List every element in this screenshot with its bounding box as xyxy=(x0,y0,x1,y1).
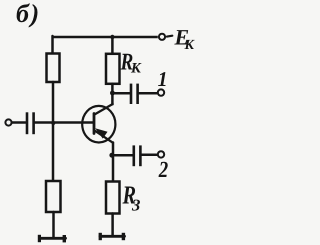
transistor Q1 (PNP) xyxy=(82,104,115,143)
terminal input circle xyxy=(5,119,11,125)
resistor Rэ xyxy=(106,182,120,214)
node emitter / C3 junction dot xyxy=(109,153,114,158)
ground (right) xyxy=(99,233,126,240)
svg-text:К: К xyxy=(184,38,196,53)
svg-text:2: 2 xyxy=(158,157,168,182)
svg-text:З: З xyxy=(131,196,140,215)
capacitor C3 (output 2) xyxy=(134,145,141,166)
wire left column middle xyxy=(52,82,55,181)
wire emitter column upper xyxy=(112,143,115,182)
wire capacitor to base xyxy=(35,121,94,124)
wire Rк to collector xyxy=(111,84,114,105)
resistor R1 (upper left bias) xyxy=(47,54,60,83)
wire left column upper xyxy=(51,36,54,54)
terminal -Ek circle xyxy=(159,34,165,40)
wire C2 to terminal 1 xyxy=(139,92,158,95)
svg-text:б): б) xyxy=(16,0,41,28)
wire top rail xyxy=(53,36,158,39)
resistor R2 (lower left bias) xyxy=(46,181,61,212)
svg-text:К: К xyxy=(130,61,142,77)
wire collector column upper xyxy=(111,37,114,54)
wire Rэ to ground xyxy=(111,214,114,236)
node junction top rail / collector column xyxy=(110,35,114,39)
node collector / C2 junction dot xyxy=(110,91,115,96)
wire input to capacitor xyxy=(12,121,26,124)
resistor Rк xyxy=(106,54,120,84)
capacitor C2 (output 1) xyxy=(131,84,138,104)
label Rк xyxy=(120,50,142,77)
label Rэ xyxy=(122,181,141,215)
terminal 1 circle xyxy=(158,89,164,95)
wire to capacitor C3 xyxy=(112,154,132,157)
ground (left) xyxy=(38,235,66,243)
svg-text:1: 1 xyxy=(158,67,168,91)
label -Eк xyxy=(174,25,196,53)
wire left column lower xyxy=(52,212,55,237)
wire C3 to terminal 2 xyxy=(142,154,158,157)
capacitor C1 (input) xyxy=(27,112,34,134)
node base junction dot xyxy=(51,121,55,125)
terminal 2 circle xyxy=(158,151,164,157)
wire to capacitor C2 xyxy=(112,92,129,95)
minus sign xyxy=(167,35,172,38)
